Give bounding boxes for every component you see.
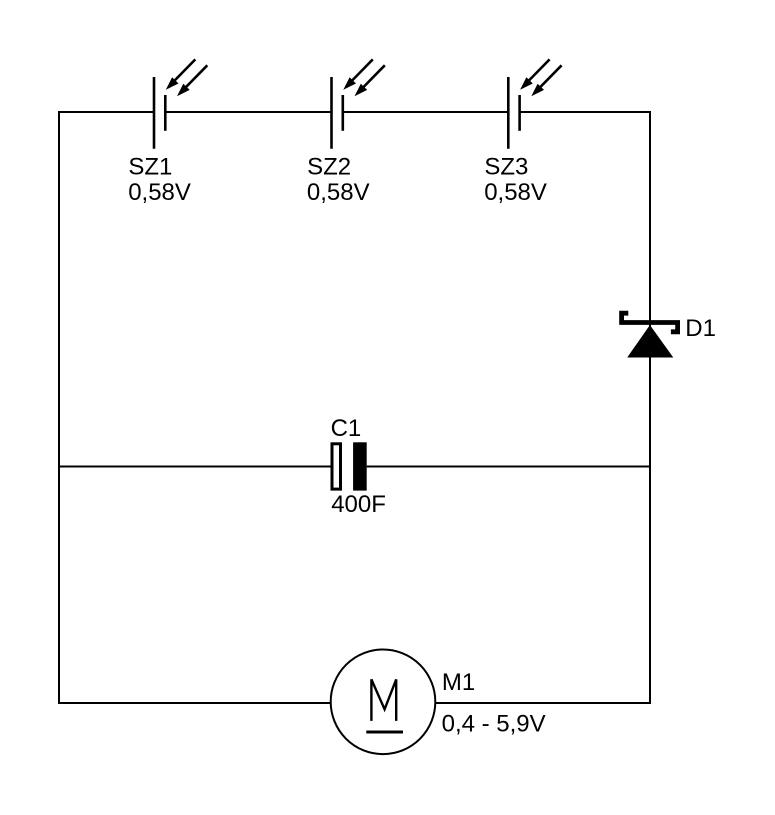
solar cell SZ1 xyxy=(154,59,207,148)
svg-text:SZ1: SZ1 xyxy=(128,153,172,180)
svg-text:M1: M1 xyxy=(442,669,475,696)
svg-text:D1: D1 xyxy=(685,315,716,342)
wire left side xyxy=(58,111,60,704)
svg-text:0,4 - 5,9V: 0,4 - 5,9V xyxy=(442,711,546,738)
svg-text:SZ2: SZ2 xyxy=(307,153,351,180)
wire top: SZ3 to top-right corner xyxy=(520,111,651,113)
wire bottom: M1 to right xyxy=(436,702,651,704)
svg-text:0,58V: 0,58V xyxy=(128,179,191,206)
capacitor C1 (polarized) xyxy=(332,442,367,490)
wire middle: C1 to right xyxy=(367,466,651,468)
svg-text:SZ3: SZ3 xyxy=(484,153,528,180)
wire top: left corner to SZ1 xyxy=(58,111,154,113)
solar cell SZ2 xyxy=(332,59,385,148)
solar cell SZ3 xyxy=(508,59,561,148)
svg-text:C1: C1 xyxy=(331,415,362,442)
wire right side xyxy=(649,111,651,704)
motor M1 xyxy=(331,650,436,755)
svg-text:0,58V: 0,58V xyxy=(484,179,547,206)
diode D1 (Schottky) xyxy=(622,313,678,357)
svg-text:400F: 400F xyxy=(331,491,386,518)
wire bottom: left to M1 xyxy=(58,702,331,704)
wire middle: left to C1 xyxy=(58,466,331,468)
svg-text:0,58V: 0,58V xyxy=(307,179,370,206)
wire top: SZ2 to SZ3 xyxy=(343,111,509,113)
wire top: SZ1 to SZ2 xyxy=(165,111,332,113)
